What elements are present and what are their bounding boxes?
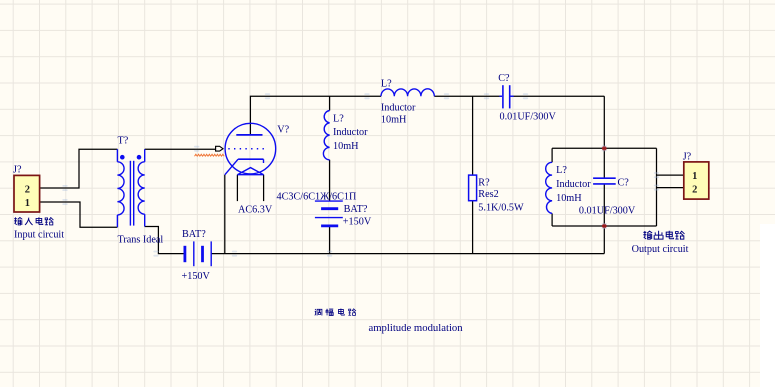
svg-text:5.1K/0.5W: 5.1K/0.5W <box>478 203 524 214</box>
svg-text:10mH: 10mH <box>556 193 582 204</box>
svg-text:Inductor: Inductor <box>381 102 416 113</box>
svg-text:+150V: +150V <box>343 216 372 227</box>
svg-text:T?: T? <box>118 135 129 146</box>
svg-text:Input circuit: Input circuit <box>14 229 64 240</box>
svg-text:C?: C? <box>498 73 510 84</box>
svg-text:V?: V? <box>277 125 289 136</box>
svg-text:AC6.3V: AC6.3V <box>238 205 273 216</box>
svg-text:J?: J? <box>683 152 692 163</box>
svg-text:0.01UF/300V: 0.01UF/300V <box>579 206 636 217</box>
svg-text:amplitude modulation: amplitude modulation <box>369 322 464 334</box>
svg-text:2: 2 <box>25 185 30 196</box>
svg-text:L?: L? <box>381 78 392 89</box>
svg-text:2: 2 <box>692 184 697 195</box>
svg-text:C?: C? <box>618 177 630 188</box>
svg-text:Res2: Res2 <box>478 189 498 200</box>
svg-text:R?: R? <box>478 177 490 188</box>
svg-text:L?: L? <box>333 114 344 125</box>
svg-text:10mH: 10mH <box>381 115 407 126</box>
svg-text:Trans Ideal: Trans Ideal <box>118 234 164 245</box>
svg-text:L?: L? <box>556 165 567 176</box>
svg-text:1: 1 <box>25 198 30 209</box>
svg-text:4C3C/6C1Ж/6С1П: 4C3C/6C1Ж/6С1П <box>277 191 358 202</box>
svg-text:Output circuit: Output circuit <box>632 244 689 255</box>
svg-text:1: 1 <box>692 171 697 182</box>
svg-text:+150V: +150V <box>182 271 211 282</box>
svg-text:Inductor: Inductor <box>556 179 591 190</box>
svg-text:BAT?: BAT? <box>344 204 368 215</box>
svg-text:Inductor: Inductor <box>333 127 368 138</box>
svg-text:0.01UF/300V: 0.01UF/300V <box>500 112 557 123</box>
svg-text:J?: J? <box>13 165 22 176</box>
svg-text:BAT?: BAT? <box>182 229 206 240</box>
svg-text:10mH: 10mH <box>333 141 359 152</box>
